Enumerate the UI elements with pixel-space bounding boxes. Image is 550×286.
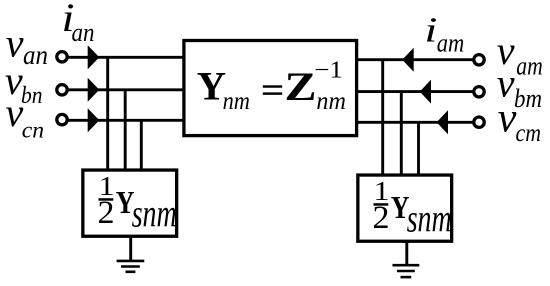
label v_cn [6,90,45,144]
terminal v_bm [474,87,484,97]
svg-text:bm: bm [514,83,542,113]
svg-text:am: am [516,51,543,80]
terminal v_am [474,55,484,65]
arrow i_cm [437,110,448,134]
box half-Ysnm left [83,170,177,236]
wire tap c right [417,122,420,175]
svg-text:bn: bn [21,83,43,109]
svg-text:Z: Z [285,64,317,109]
ground left [117,237,145,272]
wire phase c right [357,121,473,124]
wire tap b left [124,90,127,170]
svg-text:an: an [72,18,95,47]
wire tap a left [106,57,109,170]
label i_an [62,0,95,47]
svg-text:am: am [437,29,465,58]
svg-text:nm: nm [316,86,346,115]
svg-text:cn: cn [22,117,44,143]
label half Ysnm right [373,176,452,241]
equation Ynm = Znm^-1 [197,58,346,116]
arrow i_bm [420,80,431,104]
terminal v_cm [474,117,484,127]
arrow i_cn [88,108,100,132]
svg-text:2: 2 [373,200,390,236]
svg-text:cm: cm [516,118,542,147]
wire phase b left [66,88,184,91]
arrow i_an [88,45,100,69]
box half-Ysnm right [358,175,452,241]
label v_cm [498,96,541,148]
svg-text:nm: nm [223,86,250,115]
wire phase c left [66,119,184,122]
label v_bm [497,60,542,113]
arrow i_am [402,48,414,72]
label v_an [6,20,48,70]
arrow i_bn [88,78,100,102]
terminal v_bn [57,85,67,95]
svg-text:v: v [6,90,24,135]
label v_am [497,28,543,80]
ground right [393,242,420,277]
wire phase b right [357,90,473,93]
label i_am [424,11,464,58]
wire tap b right [400,92,403,175]
svg-text:snm: snm [132,192,177,235]
wire phase a right [357,58,473,61]
label v_bn [5,58,43,109]
wire tap c left [140,120,143,170]
terminal v_an [57,52,67,62]
svg-text:−1: −1 [314,58,343,84]
wire phase a left [66,56,184,59]
svg-text:2: 2 [98,195,115,231]
label half Ysnm left [98,171,177,236]
svg-text:v: v [498,96,517,142]
terminal v_cn [57,114,67,124]
wire tap a right [381,60,384,175]
svg-text:an: an [23,40,48,70]
svg-text:snm: snm [407,197,452,240]
box Ynm = Znm^-1 [184,41,357,136]
svg-text:i: i [424,11,437,50]
